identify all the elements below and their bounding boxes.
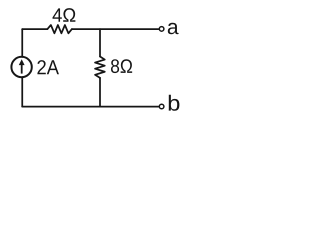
- resistor R2 8ohm zigzag: [95, 57, 105, 78]
- value label 4 ohm: [53, 8, 76, 22]
- wire middle lower (8-ohm resistor to bottom wire): [99, 78, 101, 107]
- terminal a circle: [159, 27, 164, 32]
- current source arrow (upward): [19, 59, 25, 73]
- wire bottom (bottom node to terminal b): [22, 106, 158, 108]
- current source I1 circle: [11, 57, 31, 77]
- resistor R1 4ohm zigzag: [47, 25, 72, 33]
- node label b: [169, 95, 180, 111]
- node label a: [168, 23, 179, 35]
- terminal b circle: [159, 104, 164, 109]
- wire top-right (resistor to terminal a): [72, 28, 159, 30]
- wire top-left (node top to 4-ohm resistor): [22, 28, 47, 30]
- value label 8 ohm: [111, 59, 132, 73]
- wire left lower (current source to bottom wire): [21, 77, 23, 107]
- value label 2A: [37, 60, 59, 74]
- wire middle upper (top node junction down to 8-ohm resistor): [99, 29, 101, 56]
- wire left upper (top wire down to current source): [21, 29, 23, 57]
